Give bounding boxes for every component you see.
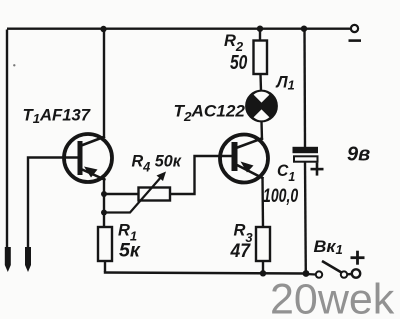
svg-text:50: 50 — [230, 51, 247, 73]
wire top rail — [7, 28, 351, 30]
svg-text:9в: 9в — [347, 144, 370, 166]
wire R2 to lamp — [259, 74, 262, 91]
wire R1 bottom to rail — [104, 261, 106, 272]
wire C1 to bottom junction — [304, 162, 307, 274]
wire junction to switch contact — [306, 273, 316, 276]
junction top rail / R2 — [257, 26, 263, 32]
wire T1 emitter down — [103, 178, 105, 228]
terminal minus (battery -) — [351, 25, 358, 32]
wire lamp to T2 collector — [260, 121, 263, 140]
resistor R4 body — [139, 188, 171, 201]
svg-text:T1AF137: T1AF137 — [23, 106, 91, 126]
capacitor C1 — [293, 147, 319, 162]
svg-text:47: 47 — [230, 239, 252, 261]
junction bottom rail / R3 — [260, 270, 266, 276]
probe electrode 1 — [5, 247, 11, 272]
wire R3 bottom to rail — [262, 261, 264, 273]
wire T2 emitter to R3 — [261, 177, 264, 228]
resistor R3 body — [256, 227, 270, 261]
wire T1 base lead to probe 2 — [28, 158, 79, 249]
junction bottom rail / C1 / switch — [303, 270, 310, 277]
wire rail to C1 — [303, 29, 306, 147]
junction at top rail and T1 collector — [100, 26, 106, 32]
lamp L1 — [247, 91, 277, 121]
speck — [13, 64, 15, 66]
svg-text:T2AC122: T2AC122 — [174, 102, 246, 124]
junction node T1 emitter / R4 — [101, 191, 107, 197]
svg-text:5к: 5к — [119, 240, 141, 262]
resistor R1 body — [98, 227, 112, 261]
plus polarity label at C1 — [311, 163, 324, 176]
wire rail to R2 — [259, 29, 261, 41]
R4 wiper arrow — [104, 172, 166, 213]
wire bottom rail — [104, 273, 306, 274]
svg-text:C1: C1 — [277, 162, 295, 184]
wire node to R4 left — [104, 193, 138, 195]
switch Bk1 — [316, 261, 352, 278]
svg-text:20wek: 20wek — [270, 276, 395, 319]
transistor T2 — [220, 135, 268, 183]
junction node wiper tap — [101, 210, 107, 216]
terminal plus (battery +) — [352, 269, 360, 277]
junction top rail / C1 branch — [301, 26, 307, 32]
resistor R2 body — [254, 41, 268, 75]
wire T1 collector to top rail — [103, 29, 105, 138]
svg-text:Л1: Л1 — [276, 73, 295, 92]
wire left frame (probe 1 lead) — [6, 30, 8, 249]
minus polarity label — [349, 39, 362, 42]
svg-text:100,0: 100,0 — [263, 185, 299, 207]
svg-text:R4 50к: R4 50к — [132, 151, 183, 174]
svg-text:Вк1: Вк1 — [314, 236, 343, 257]
transistor T1 — [64, 134, 112, 182]
plus polarity label at terminal — [351, 251, 365, 265]
probe electrode 2 — [25, 247, 31, 272]
wire R4 right to T2 base — [170, 156, 232, 194]
